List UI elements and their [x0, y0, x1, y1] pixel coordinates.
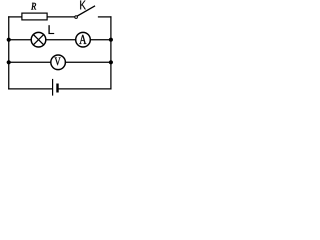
wire voltmeter to right node — [65, 61, 111, 63]
wire right vertical — [110, 17, 112, 89]
wire switch to top right corner — [99, 16, 111, 18]
battery — [53, 80, 58, 96]
node right ammeter junction — [109, 38, 113, 42]
wire voltmeter row left — [9, 61, 51, 63]
label R — [31, 3, 36, 10]
wire bottom left to battery — [9, 88, 52, 90]
wire top left to resistor — [9, 16, 22, 18]
lamp L — [31, 32, 46, 47]
label A — [79, 35, 86, 44]
voltmeter V — [51, 55, 66, 70]
switch K — [75, 6, 95, 18]
label V — [55, 58, 61, 66]
wire resistor to switch — [48, 16, 75, 18]
wire left vertical — [8, 17, 10, 89]
wire lamp to ammeter — [46, 39, 76, 41]
node right voltmeter junction — [109, 60, 113, 64]
label K — [80, 1, 86, 10]
node left voltmeter junction — [7, 60, 11, 64]
wire ammeter to right node — [90, 39, 111, 41]
ammeter A — [76, 32, 91, 47]
label L — [49, 25, 55, 34]
node left lamp junction — [7, 38, 11, 42]
wire lamp row left — [9, 39, 31, 41]
wire battery to bottom right corner — [59, 88, 111, 90]
resistor R — [22, 13, 47, 20]
